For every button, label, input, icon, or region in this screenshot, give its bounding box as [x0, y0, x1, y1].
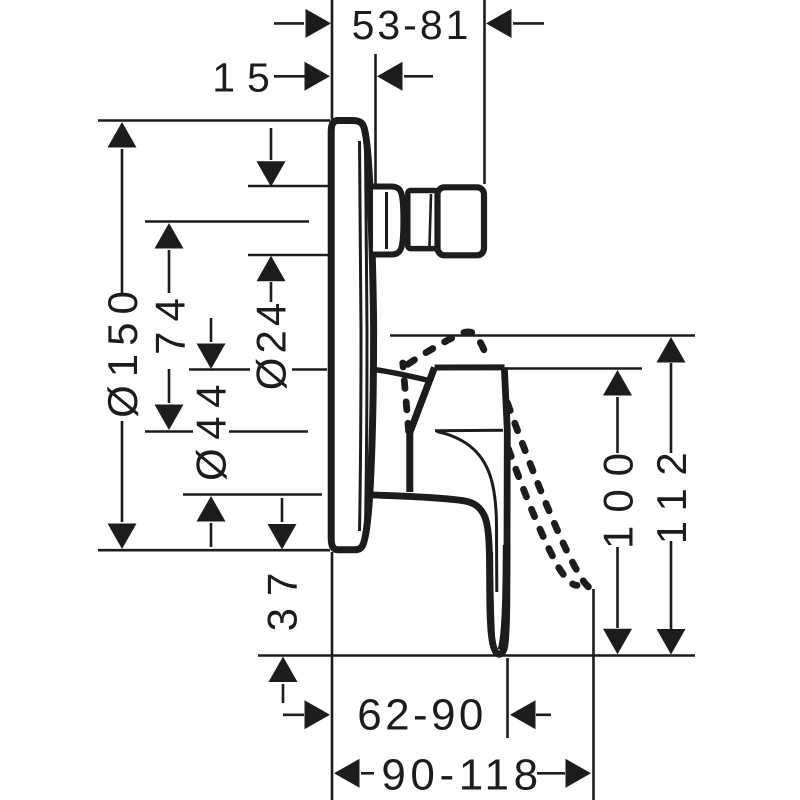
arrow 100 bottom	[603, 629, 632, 655]
reference line hub top right y=368.5 (100 top)	[503, 367, 642, 370]
hub left slanted edge	[410, 368, 435, 433]
reference line top of plate y=120.5	[98, 119, 330, 122]
dimension 62-90 tails	[283, 713, 304, 716]
reference line bottom datum y=655.5	[258, 654, 695, 657]
dashed lever lower edge	[509, 449, 578, 585]
dimension 37 line	[281, 498, 284, 522]
lever lower filled tip	[486, 552, 495, 646]
dimension 74 line	[168, 250, 171, 293]
lever lower right edge reinforcement	[501, 545, 506, 650]
body outline: bottom edge, lever blade and hub right edge	[372, 367, 507, 654]
extension line from plate front face, upper	[331, 0, 334, 121]
flare inner edge line	[385, 192, 388, 249]
dimension Ø150 line	[121, 149, 124, 293]
svg-text:53-81: 53-81	[352, 2, 472, 48]
svg-text:Ø24: Ø24	[247, 299, 294, 390]
spout connection flare (capsule)	[373, 187, 403, 255]
arrow 15 left	[305, 62, 331, 91]
extension line from plate front face, lower	[331, 552, 334, 800]
svg-text:37: 37	[258, 561, 305, 632]
arrow 37 top	[268, 524, 297, 550]
lever inner contour	[437, 432, 497, 593]
connection end block (1/2 inch nipple)	[438, 187, 485, 255]
dimension Ø24 line	[270, 128, 273, 160]
arrow 112 top	[657, 337, 686, 363]
arrow 15 right	[377, 62, 403, 91]
arrow 90-118 left	[334, 759, 360, 788]
reference line hub top left y=369.5	[189, 368, 250, 371]
arrow Ø150 bottom	[108, 524, 137, 550]
arrow Ø44 top	[197, 344, 226, 370]
hub top edge	[435, 364, 505, 370]
arrow 62-90 left	[305, 700, 331, 729]
escutcheon plate outline	[331, 121, 373, 550]
arrow 74 top	[155, 223, 184, 249]
dimension 15 tails	[274, 75, 305, 78]
arrow Ø150 top	[108, 122, 137, 148]
reference line neck top y=186 (crosses plate)	[248, 185, 331, 188]
hub left vertical edge	[406, 433, 413, 493]
arrow Ø24 top	[257, 161, 286, 187]
arrow 100 top	[603, 370, 632, 396]
arrow 53-81 left	[306, 9, 332, 38]
dimension 100 line	[616, 397, 619, 453]
svg-text:112: 112	[648, 440, 695, 544]
reference line hub bottom y=494.5	[183, 493, 322, 496]
valve body top edge	[371, 369, 429, 381]
arrow 62-90 right	[510, 700, 536, 729]
svg-text:90-118: 90-118	[381, 751, 542, 800]
arrow Ø44 bottom	[197, 496, 226, 522]
extension line block right face (53-81 right)	[483, 0, 486, 184]
svg-text:62-90: 62-90	[357, 691, 487, 740]
extension line lever tip (62-90 right)	[506, 658, 509, 738]
reference line neck centre y=221.5	[145, 220, 309, 223]
svg-text:74: 74	[146, 288, 193, 355]
dimension 112 line	[670, 363, 673, 453]
arrow 37 bottom	[269, 657, 298, 683]
plate inner contour line 2	[366, 146, 368, 526]
dimension 90-118 tails	[361, 772, 374, 775]
arrow Ø24 bottom	[257, 256, 286, 281]
arrow 74 bottom	[155, 405, 184, 431]
svg-text:100: 100	[594, 440, 641, 549]
arrow 112 bottom	[657, 629, 686, 655]
arrow 53-81 right	[486, 9, 512, 38]
reference line neck bottom y=255 (crosses plate)	[248, 254, 331, 257]
reference line bottom of plate y=550.2	[98, 549, 330, 552]
svg-text:15: 15	[212, 54, 282, 100]
svg-text:Ø150: Ø150	[99, 283, 146, 418]
plate inner contour line 1	[360, 141, 362, 531]
extension line plate back face (15 right)	[374, 54, 377, 184]
reference line dashed-handle apex y=335.5 (112 top)	[390, 334, 695, 337]
dashed handle left edge	[403, 363, 409, 433]
dashed handle top roof to apex	[403, 332, 489, 368]
hub separation line	[435, 429, 503, 433]
svg-text:Ø44: Ø44	[187, 376, 234, 481]
reference line hub centre y=431.5	[145, 430, 193, 433]
middle piece edge line	[430, 194, 432, 246]
extension line dashed lever tip (90-118 right)	[592, 589, 595, 800]
dimension 53-81 tails	[274, 22, 304, 25]
arrow 90-118 right	[566, 759, 592, 788]
dashed lever upper edge with tip	[508, 403, 592, 590]
connection middle piece	[408, 191, 438, 249]
dimension Ø44 line	[210, 318, 213, 342]
